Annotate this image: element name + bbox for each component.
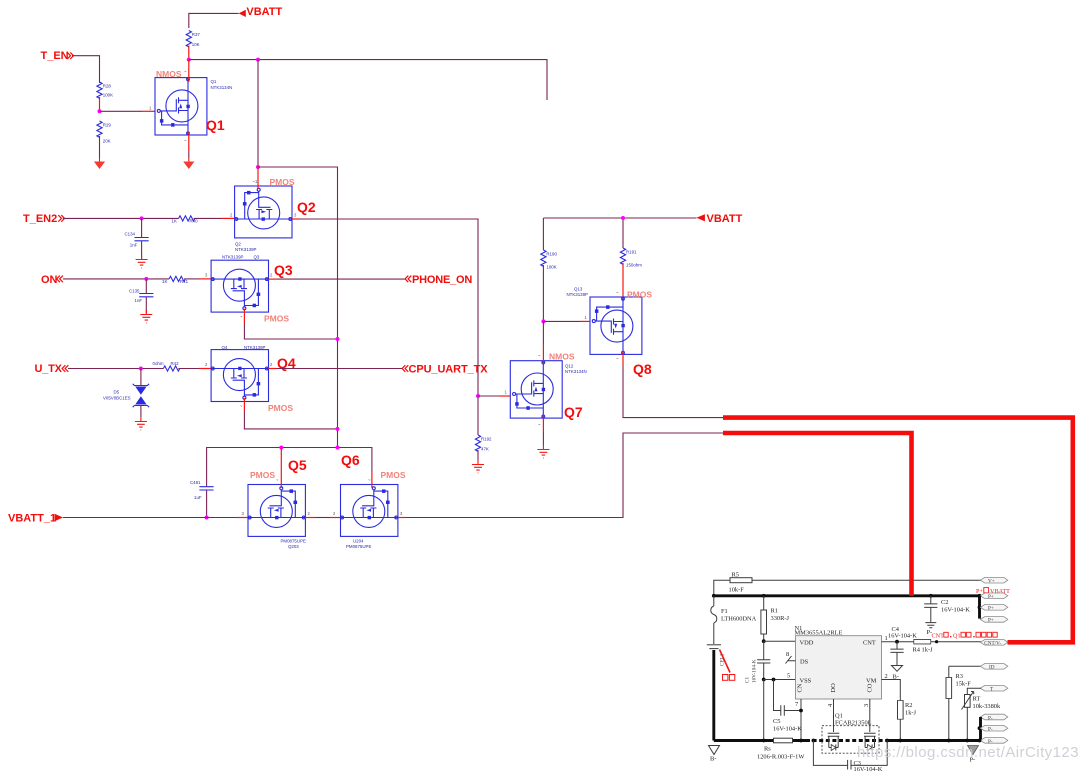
svg-text:10k-F: 10k-F <box>729 587 745 594</box>
svg-text:P+: P+ <box>988 594 994 600</box>
svg-text:MM3655AL2RLE: MM3655AL2RLE <box>795 630 843 637</box>
node junction rail x337 <box>336 446 340 450</box>
node junction C3 right <box>885 739 889 743</box>
ground P- (bus) <box>968 746 979 764</box>
svg-text:47K: 47K <box>481 447 489 452</box>
node junction Q8 gate / Q7 drain <box>541 319 545 323</box>
svg-text:5: 5 <box>787 673 790 680</box>
dashed bus through Q1 FETs <box>806 739 886 742</box>
svg-text:U_TX: U_TX <box>35 363 63 375</box>
node junction R4 out <box>935 640 938 643</box>
svg-text:1uF: 1uF <box>194 495 202 500</box>
svg-text:NMOS: NMOS <box>549 352 575 362</box>
svg-text:CNT: CNT <box>932 632 945 639</box>
wire R191 to Q8 <box>622 263 624 301</box>
wire V+ net top <box>714 580 730 596</box>
wire R5 to V+ <box>752 579 981 581</box>
fuse F1 LTH600DNA <box>711 596 757 644</box>
node junction RT/bus <box>965 739 969 743</box>
port PHONE_ON <box>405 274 472 286</box>
wire Q5 top pin <box>280 448 282 488</box>
wire Q3 source to x337 <box>244 309 337 339</box>
port VBATT_1 <box>8 513 63 525</box>
svg-text:VBATT: VBATT <box>707 213 743 225</box>
svg-text:NTK3139P: NTK3139P <box>567 292 589 297</box>
wire R3 to ID <box>949 665 981 667</box>
connector P- (2) <box>980 725 1008 732</box>
svg-text:PMOS: PMOS <box>381 470 406 480</box>
node junction R2/bus <box>898 739 902 743</box>
svg-text:Q2: Q2 <box>235 242 241 247</box>
node junction bus/R1 <box>762 594 766 598</box>
resistor R42 0ohm <box>153 361 180 371</box>
node junction rail to Q2 branch <box>256 58 260 62</box>
svg-text:T_EN: T_EN <box>41 50 69 62</box>
svg-text:V05V0BC1ES: V05V0BC1ES <box>103 396 131 401</box>
svg-text:R191: R191 <box>626 250 637 255</box>
wire R4 to CNT/V- <box>931 641 981 643</box>
connector CNT/V- <box>980 640 1008 647</box>
connector P- (1) <box>980 714 1008 721</box>
power symbol VBATT (top) <box>189 6 283 28</box>
svg-text:Q1: Q1 <box>211 79 217 84</box>
svg-text:1k-J: 1k-J <box>905 710 917 717</box>
svg-text:NTK3134N: NTK3134N <box>565 369 587 374</box>
wire T_EN to divider <box>72 56 100 83</box>
node junction C1/bus <box>762 739 766 743</box>
node junction C135 tap <box>144 277 148 281</box>
node junction divider <box>98 109 102 113</box>
svg-text:10K: 10K <box>192 42 200 47</box>
svg-text:1K: 1K <box>162 279 167 284</box>
svg-text:LTH600DNA: LTH600DNA <box>721 616 757 623</box>
svg-text:330R-J: 330R-J <box>771 615 790 622</box>
node junction bus/P+ <box>978 594 982 598</box>
resistor R5 10k-F <box>729 572 753 594</box>
wire branch to x337 vertical <box>258 167 338 448</box>
thick bus bottom B- <box>714 739 980 742</box>
svg-text:R1: R1 <box>771 608 778 615</box>
svg-text:R40: R40 <box>190 218 199 223</box>
svg-text:P-: P- <box>988 715 993 721</box>
wire Q8 source down to thick red <box>623 351 723 418</box>
svg-text:VSS: VSS <box>800 677 812 684</box>
svg-text:R41: R41 <box>180 279 189 284</box>
wire Q2 drain out to x478 <box>292 213 478 436</box>
wire VBATT_1 to Q5 <box>63 511 248 518</box>
wire VM to R2 <box>882 673 901 701</box>
svg-text:1nF: 1nF <box>135 298 143 303</box>
svg-text:U204: U204 <box>353 539 364 544</box>
wire R28 to node <box>99 97 101 111</box>
wire Q7 drain pin <box>542 321 544 364</box>
wire C1 bottom to bus <box>763 680 765 741</box>
svg-text:T_EN2: T_EN2 <box>23 213 57 225</box>
node junction R37/Q1 drain rail <box>187 58 191 62</box>
capacitor C4 16V-104-K <box>888 626 917 666</box>
svg-text:P+: P+ <box>988 606 994 612</box>
wire CO pin to FET2 gate <box>863 699 870 732</box>
svg-text:Q3: Q3 <box>274 262 293 278</box>
svg-text:NTK3139P: NTK3139P <box>244 345 266 350</box>
node junction C481/VBATT_1 <box>205 516 209 520</box>
transistor Q5 PM0875UPE PMOS <box>248 457 307 549</box>
label CNT annotation (chinese) <box>932 632 998 639</box>
connector T <box>980 685 1008 692</box>
wire R190 to node <box>542 265 544 321</box>
svg-text:R3: R3 <box>956 673 963 680</box>
svg-text:PM0875UPE: PM0875UPE <box>346 544 371 549</box>
thick red wire lower (Q6 to P+ bus) <box>723 433 912 596</box>
wire Q4 source to x337 <box>244 398 337 429</box>
ground (R192) <box>472 460 484 473</box>
svg-text:Q12: Q12 <box>565 364 574 369</box>
svg-text:CNT/V-: CNT/V- <box>984 641 1001 647</box>
svg-text:3: 3 <box>863 704 870 707</box>
svg-text:8: 8 <box>786 651 789 658</box>
svg-text:16V-104-K: 16V-104-K <box>773 726 802 733</box>
svg-text:R28: R28 <box>103 84 112 89</box>
svg-text:R4 1k-J: R4 1k-J <box>913 647 934 654</box>
battery cell CEL1 <box>707 645 726 666</box>
svg-text:VBATT: VBATT <box>246 6 282 18</box>
svg-text:10k-3380k: 10k-3380k <box>973 703 1001 710</box>
wire Q7 source to ground <box>542 415 544 445</box>
svg-text:1206-R.003-F-1W: 1206-R.003-F-1W <box>757 754 805 761</box>
wire DO pin to FET1 gate <box>827 699 834 732</box>
resistor R192 47K <box>475 435 492 452</box>
svg-text:~1: ~1 <box>253 179 258 184</box>
svg-text:16V-104-K: 16V-104-K <box>941 607 970 614</box>
wire T_EN2 to R40 <box>63 217 179 219</box>
transistor Q7 NTK3134N NMOS <box>510 352 586 428</box>
svg-text:20K: 20K <box>103 139 111 144</box>
svg-text:R2: R2 <box>905 702 912 709</box>
svg-text:V+: V+ <box>988 578 995 584</box>
wire R192 to ground <box>477 450 479 460</box>
svg-text:CN: CN <box>796 683 803 692</box>
thick bus B+ <box>714 594 980 597</box>
connector ID <box>980 664 1008 671</box>
TVS diode D5 V05V0BC1ES <box>103 369 149 418</box>
wire R42 to Q4 <box>178 362 211 369</box>
svg-text:VDD: VDD <box>800 640 814 647</box>
node junction x337 y429 <box>336 427 340 431</box>
node junction Q7 gate tap <box>476 394 480 398</box>
svg-text:Q2: Q2 <box>297 199 316 215</box>
svg-text:15k-F: 15k-F <box>956 681 972 688</box>
capacitor C134 1nF <box>125 218 149 259</box>
wire CN pin to bus <box>795 699 801 741</box>
wire VBATT right rail <box>543 218 696 250</box>
capacitor C1 16V-104-K <box>745 641 771 683</box>
resistor R28 100K <box>97 82 113 98</box>
wire Q5/Q6 top rail <box>207 448 372 518</box>
svg-text:R5: R5 <box>732 572 739 579</box>
wire Q6 out to corner <box>398 433 723 518</box>
svg-text:ON: ON <box>41 274 58 286</box>
connector P+ (3) <box>980 617 1008 624</box>
transistor Q4 NTK3139P PMOS <box>211 345 296 413</box>
svg-text:C5: C5 <box>773 718 780 725</box>
svg-text:P+: P+ <box>988 618 994 624</box>
node junction P- bus <box>978 739 982 743</box>
wire Q5 to Q6 <box>305 511 340 518</box>
wire P+ chain <box>978 596 981 619</box>
resistor R4 1k-J <box>913 639 934 653</box>
svg-text:F1: F1 <box>721 608 728 615</box>
svg-text:C481: C481 <box>190 480 201 485</box>
node junction rail Q5 <box>279 446 283 450</box>
svg-text:PMOS: PMOS <box>627 290 652 300</box>
ground B- (C4) <box>892 666 903 681</box>
capacitor C2 16V-104-K <box>924 596 970 619</box>
node junction VSS/C1 <box>762 678 766 682</box>
svg-text:PMOS: PMOS <box>264 314 289 324</box>
node junction R3/bus <box>947 739 951 743</box>
wire R29 to ground <box>99 136 101 158</box>
transistor Q2 NTK3139P PMOS <box>235 177 316 252</box>
transistor Q8 NTK3139P PMOS <box>567 287 653 378</box>
svg-text:R29: R29 <box>103 123 112 128</box>
wire U_TX to R42 <box>68 368 163 370</box>
node junction P+ mid <box>978 605 982 609</box>
svg-text:Q4: Q4 <box>222 345 228 350</box>
port ON <box>41 274 63 286</box>
svg-text:R37: R37 <box>192 32 201 37</box>
resistor Rs 1206-R.003-F-1W <box>757 738 805 760</box>
connector P+ (2) <box>980 605 1008 612</box>
svg-text:Q5: Q5 <box>288 457 307 473</box>
ground P- (C2) <box>925 619 936 636</box>
svg-text:VM: VM <box>866 677 877 684</box>
svg-text:Q6: Q6 <box>341 452 360 468</box>
wire Q6 top pin <box>371 471 373 488</box>
node junction VDD <box>762 639 766 643</box>
ground (Q1 source) <box>183 158 194 169</box>
FET 1 of Q1 <box>828 733 840 750</box>
ground (Q7) <box>537 445 549 458</box>
power symbol VBATT (right) <box>696 213 742 225</box>
svg-text:PM0875UPE: PM0875UPE <box>281 539 306 544</box>
wire Q2 gate pin <box>257 167 259 189</box>
port T_EN2 <box>23 213 65 225</box>
svg-text:R190: R190 <box>546 252 557 257</box>
svg-text:D5: D5 <box>114 390 120 395</box>
node junction VSS/C5 <box>772 678 776 682</box>
svg-text:C135: C135 <box>129 289 140 294</box>
svg-text:VBATT_1: VBATT_1 <box>8 513 56 525</box>
svg-text:Q3: Q3 <box>254 255 260 260</box>
resistor R191 150ohm <box>620 248 642 268</box>
wire Q1 drain pin <box>188 60 190 82</box>
svg-text:C2: C2 <box>941 599 948 606</box>
port T_EN <box>41 50 74 62</box>
wire Q3 drain out to PHONE_ON <box>269 273 406 280</box>
wire R40 to Q2 <box>194 213 235 219</box>
wire ON to R41 <box>63 278 169 280</box>
node junction CN/bus <box>799 739 803 743</box>
resistor R29 20K <box>97 121 112 144</box>
svg-text:16V-104-K: 16V-104-K <box>752 659 758 683</box>
svg-text:C134: C134 <box>125 232 136 237</box>
wire T to RT <box>967 688 981 694</box>
resistor R2 1k-J <box>898 701 917 741</box>
svg-text:Q13: Q13 <box>574 287 583 292</box>
ground (D5) <box>135 417 147 430</box>
svg-text:16V-104-K: 16V-104-K <box>888 633 917 640</box>
capacitor C135 1nF <box>129 279 153 313</box>
FET 2 of Q1 <box>864 733 876 750</box>
node junction x337 y339 <box>336 337 340 341</box>
svg-text:Q1: Q1 <box>953 632 961 639</box>
svg-text:NTK3134N: NTK3134N <box>211 85 233 90</box>
resistor R41 1K <box>162 276 189 284</box>
capacitor C481 1uF <box>190 480 214 500</box>
wire R41 to Q3 <box>184 273 211 279</box>
wire Q1 source to ground <box>188 132 190 159</box>
wire VSS <box>764 673 796 680</box>
svg-text:1K: 1K <box>172 218 177 223</box>
svg-text:PMOS: PMOS <box>270 177 295 187</box>
node junction C134 tap <box>140 216 144 220</box>
svg-text:R192: R192 <box>481 437 492 442</box>
svg-text:C1: C1 <box>745 677 751 683</box>
node junction CNT/C4 <box>895 640 899 644</box>
node junction x258 y167 <box>256 165 260 169</box>
svg-text:P-: P- <box>988 727 993 733</box>
node junction D5 tap <box>139 367 143 371</box>
svg-text:NTK3139P: NTK3139P <box>235 247 257 252</box>
ground (divider) <box>94 158 105 169</box>
svg-text:R42: R42 <box>171 361 180 366</box>
wire Q8 gate <box>543 315 590 321</box>
IC N1 MM3655AL2RLE <box>795 625 882 699</box>
wire CNT out <box>882 635 914 642</box>
svg-text:Rs: Rs <box>764 746 771 753</box>
port U_TX <box>35 363 69 375</box>
svg-text:NTK3139P: NTK3139P <box>222 255 244 260</box>
transistor Q1 FCAB21350L dual FET dashed box <box>822 713 879 754</box>
wire drain rail y59 <box>189 60 547 100</box>
svg-text:DO: DO <box>830 683 837 693</box>
capacitor C3 16V-104-K <box>813 741 887 771</box>
svg-text:100K: 100K <box>103 93 113 98</box>
svg-text:PHONE_ON: PHONE_ON <box>412 274 472 286</box>
wire P- chain <box>979 717 982 741</box>
connector P- (3) <box>980 738 1008 745</box>
svg-text:Q8: Q8 <box>633 361 652 377</box>
wire Q7 gate <box>478 390 510 397</box>
wire vertical x258 to Q2 <box>257 60 259 167</box>
svg-text:1nF: 1nF <box>130 242 138 247</box>
port CPU_UART_TX <box>402 364 488 376</box>
capacitor C5 16V-104-K <box>773 680 802 733</box>
thermistor RT 10k-3380k <box>962 692 1001 741</box>
transistor Q6 PM0875UPE PMOS <box>341 452 406 549</box>
label P+ = VBATT (chinese) <box>976 588 1010 595</box>
svg-text:PMOS: PMOS <box>268 403 293 413</box>
thick red wire upper (Q8 to CNT/V-) <box>723 418 1073 643</box>
svg-text:PMOS: PMOS <box>250 470 275 480</box>
svg-text:2: 2 <box>885 673 888 680</box>
wire Q4 drain out to CPU_UART_TX <box>269 362 403 369</box>
svg-text:P+: P+ <box>976 588 983 595</box>
resistor R37 10K <box>186 31 200 48</box>
wire R37 to node <box>188 46 190 60</box>
svg-text:Q203: Q203 <box>288 544 299 549</box>
svg-text:DS: DS <box>800 658 809 665</box>
ground B- (battery) <box>709 746 720 763</box>
node junction R191 tap <box>621 216 625 220</box>
svg-text:ID: ID <box>989 665 995 671</box>
resistor R190 100K <box>541 250 558 270</box>
svg-text:RT: RT <box>973 696 981 703</box>
wire gate Q1 <box>100 106 156 112</box>
svg-text:https://blog.csdn.net/AirCity1: https://blog.csdn.net/AirCity123 <box>857 744 1079 761</box>
node junction P- mid <box>978 726 982 730</box>
svg-text:CO: CO <box>866 683 873 692</box>
resistor R40 1K <box>172 216 199 224</box>
node junction C3 left <box>812 739 816 743</box>
resistor R3 15k-F <box>946 666 971 740</box>
label cell annotation (chinese) <box>720 650 735 681</box>
wire battery minus to bottom bus <box>712 650 715 741</box>
svg-text:Q1: Q1 <box>206 117 225 133</box>
transistor Q1 NTK3134N NMOS <box>155 69 232 143</box>
svg-text:Q7: Q7 <box>564 404 583 420</box>
connector P+ (1) <box>980 593 1008 600</box>
transistor Q3 NTK3139P PMOS <box>211 255 293 324</box>
node junction bus corner <box>712 594 716 598</box>
DS pin no-connect <box>786 651 796 664</box>
svg-text:B-: B- <box>710 756 716 763</box>
svg-text:FCAB21350L: FCAB21350L <box>835 720 872 727</box>
ground (C134) <box>136 255 148 268</box>
svg-text:CPU_UART_TX: CPU_UART_TX <box>409 364 489 376</box>
connector V+ <box>980 577 1008 584</box>
svg-text:16V-104-K: 16V-104-K <box>854 766 883 771</box>
svg-text:100K: 100K <box>546 265 556 270</box>
svg-text:NMOS: NMOS <box>156 69 182 79</box>
wire VDD <box>764 640 796 642</box>
svg-text:150ohm: 150ohm <box>626 263 642 268</box>
node junction CN/C5 <box>799 709 803 713</box>
svg-text:0ohm: 0ohm <box>153 361 164 366</box>
svg-text:CNT: CNT <box>863 640 876 647</box>
node junction bus/C2 <box>929 594 933 598</box>
ground (C135) <box>140 310 152 323</box>
resistor R1 330R-J <box>761 596 790 641</box>
svg-text:Q1: Q1 <box>835 713 843 720</box>
